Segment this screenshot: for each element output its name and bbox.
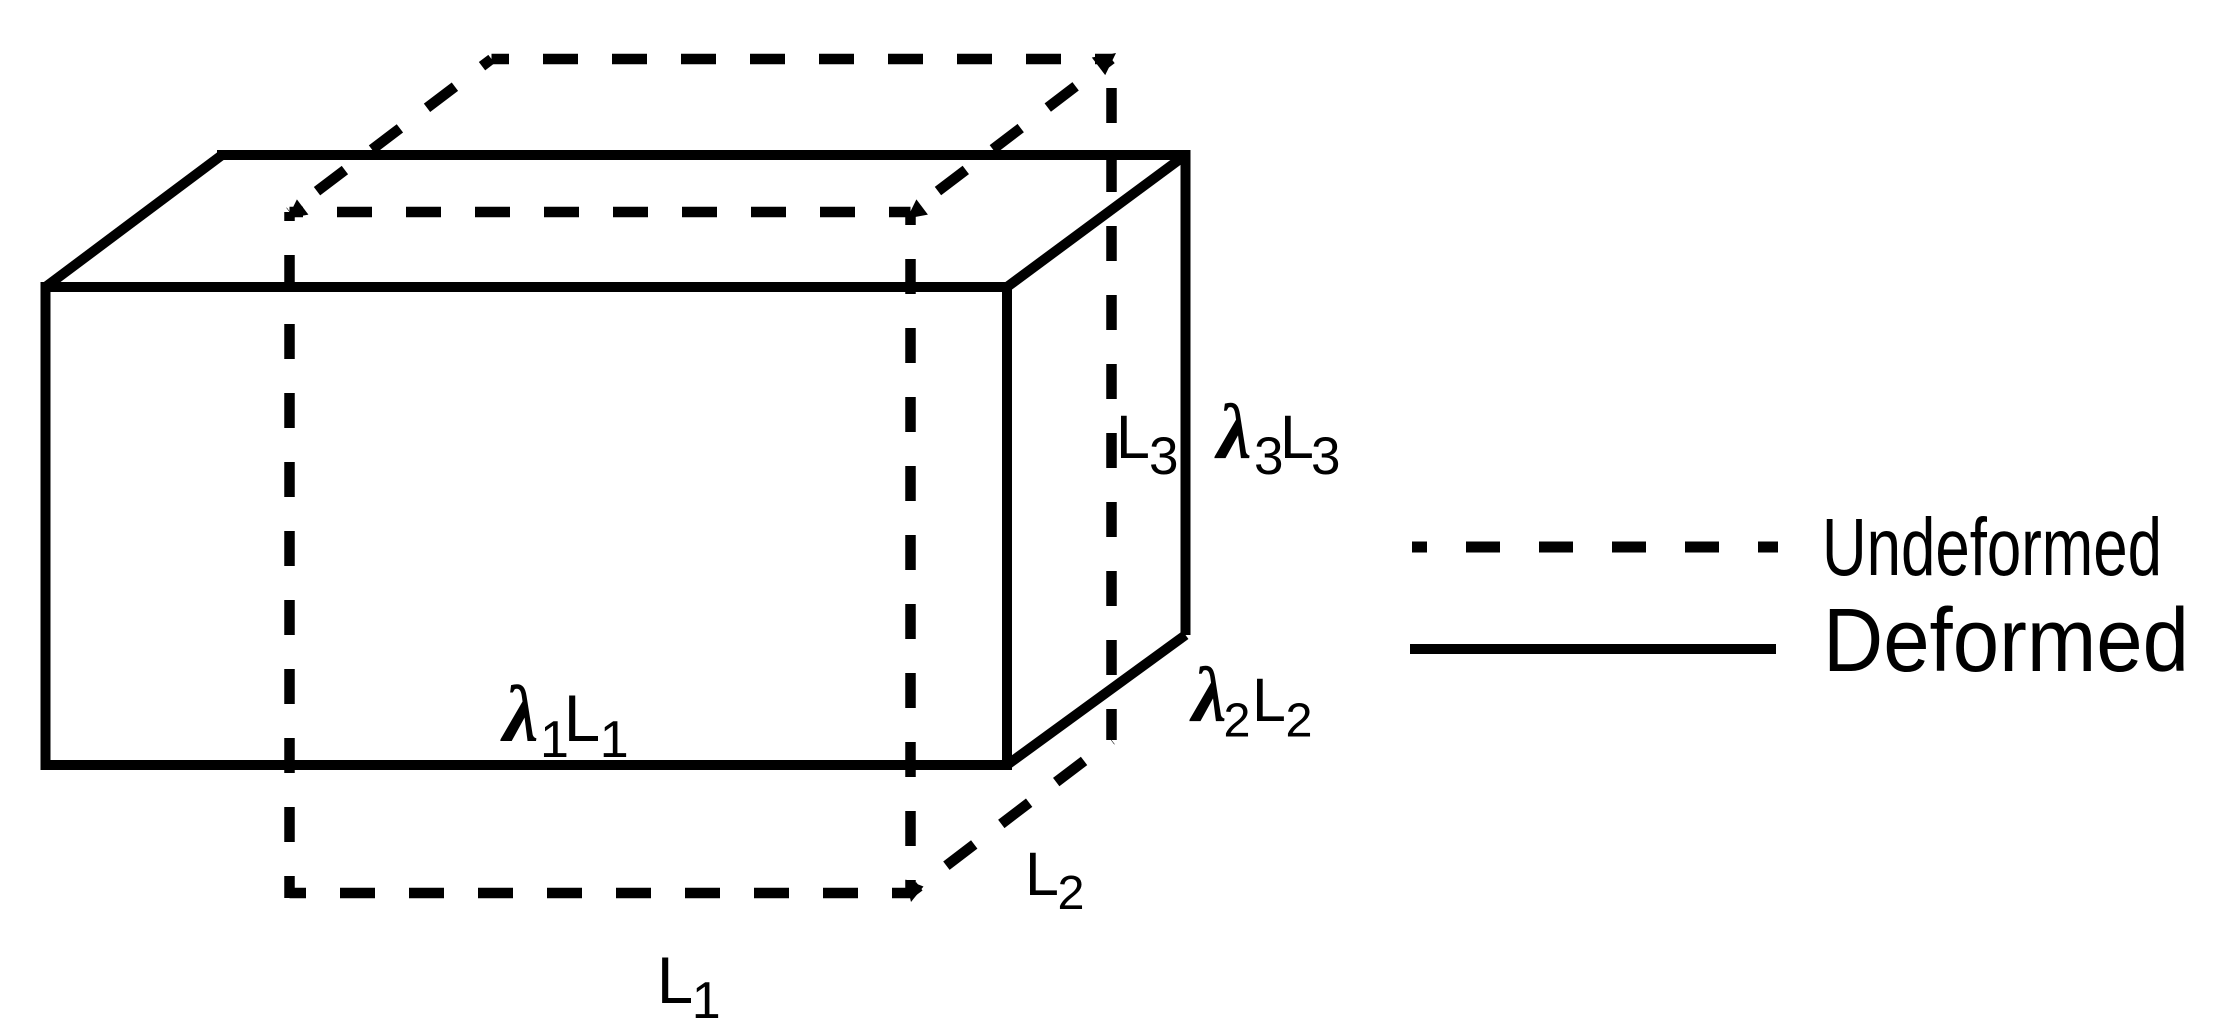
svg-text:Undeformed: Undeformed	[1822, 502, 2162, 593]
label L1	[657, 944, 721, 1030]
label L3	[1116, 403, 1178, 486]
svg-text:L: L	[657, 944, 693, 1017]
bottom-right depth edge	[1007, 635, 1186, 765]
svg-text:L: L	[1252, 666, 1286, 734]
top-left depth edge	[46, 155, 223, 287]
svg-text:Deformed: Deformed	[1823, 591, 2189, 691]
right back vertical edge	[1181, 150, 1191, 635]
deformed box (solid)	[46, 150, 1191, 765]
front face	[46, 287, 1008, 765]
front bottom edge	[290, 888, 911, 899]
arrowhead at dashed back-top-right corner	[1092, 53, 1116, 75]
bottom-right depth edge	[911, 740, 1112, 893]
svg-text:L: L	[564, 682, 600, 755]
top-right depth edge	[911, 59, 1112, 212]
label lambda3 L3	[1214, 388, 1340, 486]
svg-text:2: 2	[1286, 694, 1313, 748]
svg-text:λ: λ	[500, 671, 539, 759]
svg-text:L: L	[1116, 403, 1150, 471]
label lambda1 L1	[500, 671, 629, 769]
top-left depth edge	[290, 59, 492, 212]
svg-text:3: 3	[1149, 427, 1178, 486]
label L2	[1025, 840, 1084, 920]
svg-text:1: 1	[692, 972, 721, 1030]
top back edge	[492, 54, 1112, 65]
undeformed box (dashed)	[290, 59, 1112, 898]
legend dashed line (undeformed)	[1412, 542, 1778, 553]
svg-text:λ: λ	[1189, 651, 1227, 738]
legend solid line (deformed)	[1410, 644, 1776, 654]
arrowhead at dashed front-top-right corner	[907, 199, 928, 218]
svg-text:3: 3	[1311, 427, 1340, 486]
svg-text:λ: λ	[1214, 388, 1252, 475]
front top edge	[290, 207, 911, 218]
top back edge	[217, 150, 1191, 160]
svg-text:1: 1	[600, 711, 629, 769]
arrowhead at dashed front-bottom-right corner	[906, 880, 924, 903]
label lambda2 L2	[1189, 651, 1312, 748]
svg-text:L: L	[1025, 840, 1059, 908]
back right vertical edge	[1106, 59, 1117, 740]
svg-text:2: 2	[1058, 866, 1085, 920]
arrowhead at dashed front-top-left corner	[288, 199, 309, 218]
svg-text:L: L	[1280, 403, 1314, 471]
top-right depth edge	[1007, 155, 1186, 287]
front right edge	[905, 212, 916, 893]
front left edge	[284, 212, 295, 898]
svg-text:2: 2	[1224, 694, 1251, 748]
